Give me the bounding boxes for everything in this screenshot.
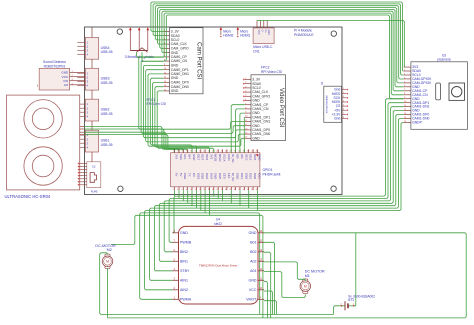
wire gpio bus row 8: [140, 213, 260, 315]
svg-text:BT1: BT1: [348, 298, 354, 302]
USB port block USB1: [77, 130, 112, 152]
wire CSI bus top 1: [151, 2, 404, 71]
Pi 4 module board outline PI4MODULE: [85, 27, 343, 195]
wire VMOT9 to inner rail: [264, 301, 277, 315]
svg-text:6: 6: [182, 189, 183, 191]
svg-text:11: 11: [245, 120, 247, 122]
svg-text:3: 3: [404, 73, 405, 75]
wire gpio bus row 5: [154, 115, 403, 271]
wire CSI bus top 2: [153, 4, 404, 75]
svg-text:5: 5: [182, 150, 183, 152]
svg-text:12: 12: [164, 77, 166, 79]
wire battery minus to inner rail: [334, 306, 340, 315]
micro USB-C connector CN1: [253, 20, 274, 53]
wire gpio pin drop col 2: [178, 190, 180, 198]
svg-text:GND: GND: [244, 173, 248, 179]
svg-text:1: 1: [245, 78, 246, 80]
svg-text:IO13: IO13: [244, 154, 248, 161]
svg-text:35: 35: [247, 150, 249, 152]
svg-text:STBY: STBY: [180, 269, 190, 273]
wire gpio to video pin 10: [243, 117, 246, 152]
wire B02 to outer rail: [264, 252, 271, 318]
ethernet jack U2 RJ45: [78, 162, 101, 194]
wire U4 GND16 to outer rail: [108, 233, 467, 318]
wire usb bus vertical: [91, 27, 93, 162]
svg-text:A02: A02: [250, 260, 256, 264]
svg-text:SCL: SCL: [183, 154, 187, 160]
svg-text:Gnd: Gnd: [334, 117, 340, 121]
sd card module U1: [320, 81, 348, 122]
wire GND11 to outer rail: [264, 281, 267, 318]
svg-text:USB-05: USB-05: [101, 143, 113, 147]
svg-text:GND: GND: [201, 173, 205, 179]
wire cam csi lower 2: [141, 61, 245, 133]
wire CSI bus top 4: [158, 8, 404, 83]
wire gpio pin drop col 9: [209, 190, 211, 215]
svg-text:9: 9: [245, 112, 246, 114]
svg-text:5: 5: [245, 95, 246, 97]
wire gpio to video pin 9: [240, 113, 245, 153]
svg-text:SCLK: SCLK: [222, 154, 226, 162]
svg-text:39: 39: [256, 150, 258, 152]
svg-text:IO25: IO25: [218, 173, 222, 180]
svg-text:M: M: [106, 260, 109, 264]
svg-text:7: 7: [245, 103, 246, 105]
svg-text:TX: TX: [188, 173, 192, 177]
battery BT1 9V: [340, 294, 376, 310]
svg-text:GNDP: GNDP: [412, 121, 423, 125]
svg-text:12: 12: [404, 109, 406, 111]
wire M2 bottom to outer rail: [107, 268, 109, 318]
wire gpio pin drop col 14: [230, 190, 232, 203]
svg-text:26: 26: [225, 189, 227, 191]
wire gpio to video pin 8: [236, 109, 245, 153]
svg-text:5: 5: [343, 105, 344, 107]
svg-text:7: 7: [343, 113, 344, 115]
wire CSI bus top 8: [164, 15, 404, 99]
svg-text:IO19: IO19: [249, 154, 253, 161]
wire gpio pin drop col 5: [191, 190, 193, 205]
svg-text:CN1: CN1: [253, 49, 260, 53]
svg-text:U4: U4: [216, 218, 220, 222]
wire cam csi lower 5: [148, 74, 245, 146]
svg-text:PWMA: PWMA: [180, 298, 192, 302]
svg-text:BIN1: BIN1: [180, 260, 188, 264]
svg-text:sd card module: sd card module: [325, 95, 329, 113]
svg-text:IO20: IO20: [253, 173, 257, 180]
svg-text:15: 15: [203, 150, 205, 152]
wire gpio pin drop col 11: [217, 190, 219, 198]
svg-text:ROBOT02PN1: ROBOT02PN1: [44, 64, 66, 68]
mounting hole bottom-left: [118, 186, 123, 191]
svg-text:AIN2: AIN2: [180, 288, 188, 292]
svg-text:34: 34: [243, 189, 245, 191]
svg-text:6: 6: [245, 99, 246, 101]
svg-text:M: M: [304, 285, 307, 289]
svg-text:RPi Video CSI: RPi Video CSI: [261, 70, 282, 74]
svg-text:1: 1: [343, 88, 344, 90]
svg-text:14: 14: [245, 133, 247, 135]
svg-text:IO21: IO21: [257, 173, 261, 180]
svg-text:4: 4: [343, 100, 344, 102]
svg-text:sfe22: sfe22: [214, 222, 222, 226]
mounting hole top-right: [331, 31, 336, 36]
wire cam csi lower 3: [143, 65, 245, 137]
svg-text:IO22: IO22: [205, 154, 209, 161]
wire gpio pin drop col 4: [187, 190, 189, 203]
wire cam csi lower 4: [146, 70, 245, 142]
svg-text:1: 1: [173, 150, 174, 152]
GPIO 40-pin header GPIO1: [171, 149, 262, 191]
svg-text:IO12: IO12: [240, 173, 244, 180]
svg-text:13: 13: [199, 150, 201, 152]
svg-text:PI4MODULE: PI4MODULE: [294, 33, 314, 37]
svg-text:USB-05: USB-05: [101, 112, 113, 116]
svg-text:5V: 5V: [179, 173, 183, 177]
svg-text:USB-05: USB-05: [101, 50, 113, 54]
svg-text:5: 5: [404, 81, 405, 83]
wire gpio to video pin 7: [231, 105, 245, 153]
svg-text:VMOT: VMOT: [246, 298, 257, 302]
audio jack J1 3.5mm: [125, 27, 154, 63]
wire gpio bus row 1: [173, 99, 404, 233]
unconnected pin marks video CSI: [243, 79, 245, 102]
svg-text:IO6: IO6: [240, 154, 244, 159]
wire gpio pin drop col 20: [256, 190, 258, 210]
svg-text:IO5: IO5: [236, 154, 240, 159]
wire gpio bus row 7: [145, 123, 404, 290]
svg-text:GND: GND: [180, 231, 188, 235]
svg-text:DC MOTOR: DC MOTOR: [305, 269, 325, 273]
wire gpio bus row 3: [164, 107, 404, 252]
svg-text:11: 11: [164, 72, 166, 74]
wire cam csi lower 9: [157, 91, 214, 153]
svg-text:ULTRASONIC HC-SR04: ULTRASONIC HC-SR04: [5, 194, 51, 199]
wire ultrasonic pin 4: [84, 135, 187, 153]
USB port block USB4: [77, 37, 112, 59]
wire gpio pin drop col 12: [222, 190, 224, 201]
svg-text:ID_SD: ID_SD: [231, 154, 235, 163]
svg-text:2: 2: [245, 82, 246, 84]
svg-text:U2: U2: [92, 165, 96, 169]
wire A02 to M1 top: [264, 262, 305, 281]
svg-text:D-: D-: [260, 30, 263, 33]
svg-text:IO23: IO23: [205, 173, 209, 180]
motor driver U4 TB6612FNG: [173, 218, 265, 304]
svg-text:15: 15: [404, 121, 406, 123]
svg-text:HDMI1: HDMI1: [240, 34, 250, 38]
svg-text:8: 8: [186, 189, 187, 191]
svg-text:3: 3: [177, 150, 178, 152]
svg-text:IO4: IO4: [188, 154, 192, 159]
wire cam csi lower 6: [150, 78, 192, 153]
svg-text:37: 37: [251, 150, 253, 152]
svg-text:3V3: 3V3: [209, 154, 213, 160]
svg-text:GND: GND: [252, 136, 260, 140]
USB port block USB3: [77, 68, 112, 90]
wire CSI bus top 3: [155, 6, 403, 79]
svg-text:8: 8: [245, 107, 246, 109]
svg-text:7: 7: [186, 150, 187, 152]
svg-text:7: 7: [404, 89, 405, 91]
dc motor M1: [300, 269, 325, 293]
svg-text:VCC: VCC: [249, 288, 257, 292]
svg-text:M1: M1: [305, 274, 310, 278]
wire ultrasonic pin 3: [84, 132, 183, 153]
micro HDMI connector HDMI2: [220, 27, 234, 38]
svg-text:6: 6: [404, 85, 405, 87]
svg-text:2: 2: [404, 70, 405, 72]
svg-text:USB-05: USB-05: [101, 81, 113, 85]
wire gpio bus row 2: [169, 103, 404, 243]
svg-text:RJ45: RJ45: [91, 190, 98, 194]
svg-text:38: 38: [251, 189, 253, 191]
svg-text:10: 10: [164, 68, 166, 70]
svg-text:21: 21: [216, 150, 218, 152]
svg-text:GND: GND: [214, 173, 218, 179]
wire gpio pin drop col 1: [174, 190, 176, 196]
svg-text:U1: U1: [320, 81, 324, 85]
mounting hole bottom-right: [331, 186, 336, 191]
svg-text:IO17: IO17: [196, 154, 200, 161]
wire gpio bus row 9: [111, 215, 263, 318]
svg-text:10: 10: [404, 101, 406, 103]
svg-text:GND: GND: [183, 173, 187, 179]
svg-text:10: 10: [245, 116, 247, 118]
svg-text:9: 9: [190, 150, 191, 152]
svg-text:SDA: SDA: [179, 154, 183, 160]
svg-text:13: 13: [164, 81, 166, 83]
svg-text:ID_SC: ID_SC: [231, 173, 235, 182]
svg-text:2: 2: [343, 92, 344, 94]
svg-text:CE0: CE0: [222, 173, 226, 179]
svg-text:GND: GND: [236, 173, 240, 179]
svg-text:6: 6: [343, 109, 344, 111]
wire cam csi lower 1: [139, 57, 245, 129]
svg-text:GPIO1: GPIO1: [263, 168, 273, 172]
svg-text:picamera: picamera: [437, 58, 450, 62]
wire ultrasonic pin 2: [84, 129, 179, 153]
wire cam csi lower 7: [153, 82, 197, 152]
svg-text:15: 15: [164, 89, 166, 91]
svg-text:IO27: IO27: [201, 154, 205, 161]
svg-text:13: 13: [404, 113, 406, 115]
svg-text:13: 13: [245, 128, 247, 130]
svg-text:4: 4: [245, 91, 246, 93]
camera CSI port FPC1 Cam Port CSI: [147, 28, 204, 106]
svg-text:VCC: VCC: [257, 30, 260, 35]
wire battery plus to GND16 line: [355, 233, 357, 306]
svg-text:2: 2: [173, 189, 174, 191]
svg-text:M2: M2: [107, 248, 112, 252]
svg-text:GND: GND: [249, 231, 257, 235]
svg-text:11: 11: [404, 105, 406, 107]
svg-text:Video Port CSI: Video Port CSI: [278, 88, 284, 128]
svg-text:B02: B02: [250, 250, 256, 254]
svg-text:MISO: MISO: [218, 154, 222, 162]
svg-text:5V: 5V: [175, 173, 179, 177]
svg-text:9: 9: [404, 97, 405, 99]
svg-text:BIN2: BIN2: [180, 250, 188, 254]
wire CSI bus top 7: [164, 13, 404, 95]
svg-text:TB6612FNG Dual Motor Driver: TB6612FNG Dual Motor Driver: [199, 264, 237, 268]
ultrasonic sensor HC-SR04: [5, 84, 85, 199]
svg-text:15: 15: [245, 137, 247, 139]
svg-text:30: 30: [234, 189, 236, 191]
wire ultrasonic pin 1: [84, 127, 174, 153]
wire gpio pin drop col 6: [195, 190, 197, 208]
wire gpio bus row 6: [150, 119, 404, 281]
svg-text:CE1: CE1: [227, 173, 231, 179]
raspberry pi camera module U3 picamera: [404, 53, 468, 129]
svg-text:GND: GND: [249, 279, 257, 283]
svg-text:PWMB: PWMB: [180, 241, 192, 245]
wire gpio pin drop col 3: [182, 190, 184, 201]
dc motor M2: [95, 244, 116, 269]
wire cam csi lower 8: [155, 87, 210, 153]
wire VCC10 to inner rail: [264, 291, 273, 314]
svg-text:MOSI: MOSI: [214, 154, 218, 162]
wire gpio pin drop col 8: [204, 190, 206, 213]
wire A01 to M1 bottom: [264, 272, 305, 298]
sound detector ROBOT02PN1: [39, 60, 85, 90]
svg-text:IO16: IO16: [249, 173, 253, 180]
svg-text:Pi 4 Module: Pi 4 Module: [294, 29, 312, 33]
svg-text:GND: GND: [227, 154, 231, 160]
svg-text:14: 14: [164, 85, 166, 87]
svg-text:GND: GND: [171, 89, 179, 93]
wire gpio pin drop col 18: [248, 190, 250, 208]
svg-text:3V3: 3V3: [175, 154, 179, 160]
wire gpio pin drop col 16: [239, 190, 241, 205]
wire gpio bus row 4: [159, 111, 403, 262]
svg-text:4: 4: [404, 77, 405, 79]
mounting hole top-left: [117, 29, 122, 34]
svg-text:A01: A01: [250, 269, 256, 273]
wire M2 top to inner rail: [100, 253, 334, 315]
svg-text:B01: B01: [250, 241, 256, 245]
video CSI port FPC2 Video Port CSI: [245, 66, 286, 141]
wire audio jack to cam pin 7: [137, 52, 164, 57]
wire CSI bus top 5: [160, 9, 404, 86]
svg-text:8: 8: [404, 93, 405, 95]
USB port block USB2: [77, 99, 112, 121]
wire gpio pin drop col 10: [213, 190, 215, 196]
svg-text:9: 9: [164, 64, 165, 66]
svg-text:3: 3: [245, 86, 246, 88]
wire B01 to inner rail: [264, 242, 275, 314]
svg-text:RPi Cam CSI: RPi Cam CSI: [147, 102, 167, 106]
svg-text:14: 14: [404, 117, 406, 119]
wire CSI bus top 6: [162, 11, 404, 91]
svg-text:PiHDR ankit: PiHDR ankit: [263, 172, 281, 176]
svg-text:GND: GND: [192, 154, 196, 160]
svg-text:8: 8: [343, 117, 344, 119]
wire audio jack to cam pin 8: [142, 52, 164, 61]
wire gpio pin drop col 7: [200, 190, 202, 210]
svg-text:25: 25: [225, 150, 227, 152]
svg-text:IO18: IO18: [196, 173, 200, 180]
svg-text:GND: GND: [267, 30, 270, 36]
svg-text:IO24: IO24: [209, 173, 213, 180]
svg-text:HDMI2: HDMI2: [223, 34, 233, 38]
svg-text:23: 23: [221, 150, 223, 152]
label GPIO1 PiHDR: [263, 168, 281, 176]
svg-text:12: 12: [245, 124, 247, 126]
svg-text:Cam Port CSI: Cam Port CSI: [196, 42, 202, 79]
svg-text:RX: RX: [192, 173, 196, 177]
svg-text:4: 4: [177, 189, 178, 191]
wire usb-c vbus tap: [257, 20, 404, 67]
svg-text:AO: AO: [64, 83, 69, 87]
svg-text:AIN1: AIN1: [180, 279, 188, 283]
micro HDMI connector HDMI1: [237, 27, 251, 38]
svg-text:3: 3: [343, 96, 344, 98]
